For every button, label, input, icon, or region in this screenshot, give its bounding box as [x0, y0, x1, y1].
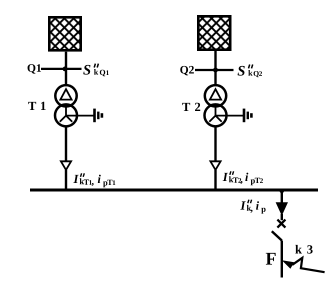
transformer T1 primary winding (delta): [55, 85, 76, 106]
wire: arrow to busbar: [65, 170, 67, 190]
wire: source 2 to breaker Q2: [214, 51, 216, 70]
wire: T2 to current arrow: [214, 126, 216, 161]
label S″kQ1: [83, 64, 109, 77]
label S″kQ2: [238, 65, 262, 78]
wire: Q2 to transformer T2: [214, 70, 216, 86]
label Q1: [28, 64, 41, 73]
transformer T2 primary winding (delta): [205, 85, 226, 106]
junction dot: busbar to feeder: [280, 189, 284, 193]
wire: feeder below switch to fault point: [281, 241, 283, 278]
ground (T2 neutral): [244, 109, 251, 123]
label Q2: [180, 66, 194, 75]
wire: T1 to current arrow: [65, 126, 67, 161]
junction dot at Q2: [213, 68, 218, 73]
label T2: [182, 103, 200, 111]
wire: T2 neutral to ground: [216, 115, 244, 117]
source system 1 (hatched square): [49, 17, 80, 50]
fault lightning bolt arrow: [282, 258, 325, 272]
transformer T2 secondary winding (wye): [205, 104, 227, 126]
label I″kT2, ipT2: [223, 171, 263, 185]
label T1: [28, 102, 45, 110]
arrow (direction of I″kT1, open head): [61, 161, 71, 170]
label F (fault point): [266, 253, 276, 265]
breaker Q2 tick line: [195, 69, 234, 71]
switch blade (open) on feeder: [272, 231, 282, 240]
transformer T1 secondary winding (wye): [55, 104, 77, 126]
ground (T1 neutral): [95, 109, 102, 123]
label k3 (three-phase short circuit): [295, 245, 312, 254]
arrow (direction of I″kT2, open head): [210, 161, 220, 170]
busbar: [30, 189, 318, 192]
label I″k, ip: [240, 200, 265, 214]
breaker Q1 tick line: [41, 68, 82, 70]
wire: busbar to feeder arrow: [281, 190, 283, 203]
label I″kT1, ipT1: [73, 173, 115, 187]
wire: T1 neutral to ground: [66, 115, 94, 117]
source system 2 (hatched square): [198, 16, 230, 49]
wire: source 1 to breaker Q1: [65, 52, 67, 69]
arrow (feeder fault current, solid head): [276, 203, 287, 215]
junction dot at Q1: [63, 67, 68, 72]
wire: Q1 to transformer T1: [65, 69, 67, 86]
wire: arrow to fault cross: [281, 214, 283, 220]
fault location cross (x): [277, 220, 285, 228]
wire: arrow to busbar: [214, 170, 216, 190]
